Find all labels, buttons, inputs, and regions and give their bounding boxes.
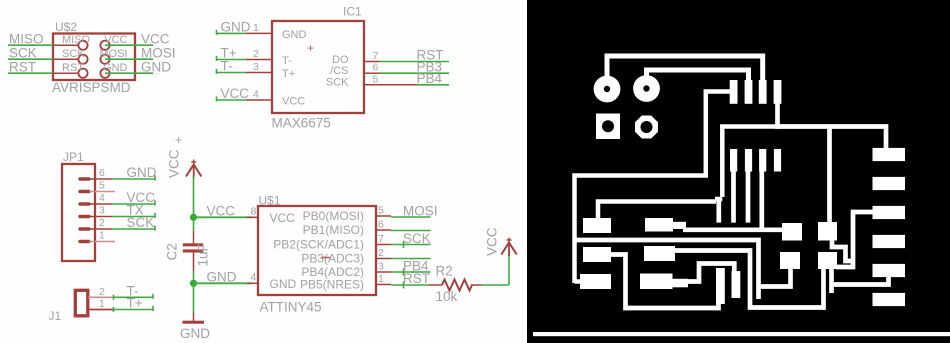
trace M3 up and over to F2 bbox=[685, 264, 734, 282]
svg-text:PB0(MOSI): PB0(MOSI) bbox=[303, 209, 364, 223]
trace A2 zigzag bbox=[832, 240, 852, 261]
svg-text:J1: J1 bbox=[49, 309, 62, 323]
trace A2 feed vertical bbox=[827, 128, 832, 223]
svg-text:10k: 10k bbox=[436, 289, 458, 304]
IC1 polarity mark + bbox=[307, 41, 314, 55]
power symbol + mark bbox=[175, 133, 182, 147]
wire SCK from JP1 pin 2 bbox=[112, 225, 155, 230]
trace main horizontal left corner bbox=[722, 127, 779, 198]
net label GND bbox=[141, 59, 171, 74]
svg-text:1: 1 bbox=[378, 273, 384, 285]
wire GND to IC1 pin 1 bbox=[217, 30, 247, 35]
U$1 pin number 8 bbox=[251, 206, 257, 218]
right IC pad 2 bbox=[873, 177, 906, 190]
U$2 pin SCK stub bbox=[53, 58, 79, 60]
IC1 inner label SCK bbox=[326, 76, 349, 88]
svg-text:GND: GND bbox=[127, 165, 157, 180]
ground symbol GND label bbox=[180, 326, 210, 341]
net label PB4 bbox=[417, 71, 443, 86]
svg-text:ATTINY45: ATTINY45 bbox=[260, 300, 322, 315]
wire RST from IC1 pin 7 bbox=[380, 61, 449, 63]
U$1 inner label PB4(ADC2) bbox=[301, 265, 364, 279]
wire from U$1 pin 6 bbox=[391, 230, 431, 232]
net label RST bbox=[403, 271, 430, 286]
svg-text:4: 4 bbox=[253, 89, 259, 101]
capacitor C2 bottom lead bbox=[193, 253, 195, 272]
wire GND to U$1 pin 4 bbox=[194, 282, 253, 284]
svg-text:7: 7 bbox=[378, 233, 384, 245]
capacitor C2 plates bbox=[183, 243, 203, 252]
IC footprint top pad 4 bbox=[774, 80, 782, 104]
pad octagon hole bbox=[635, 116, 658, 139]
net label PB3 bbox=[417, 59, 443, 74]
trace M1 to A1 bbox=[683, 227, 783, 232]
svg-text:6: 6 bbox=[99, 167, 105, 179]
net label VCC bbox=[207, 204, 236, 219]
J1 pin number 2 bbox=[99, 286, 105, 298]
trace M2 tab long bbox=[674, 251, 824, 308]
svg-text:JP1: JP1 bbox=[63, 150, 84, 164]
wire RST bbox=[8, 72, 53, 74]
U$1 pin 6 stub bbox=[376, 229, 391, 231]
pad round hole 1 bbox=[594, 76, 621, 103]
IC1 inner label /CS bbox=[330, 65, 348, 77]
wire from U$1 pin 2 bbox=[391, 258, 431, 260]
IC1 pin 3 stub bbox=[246, 72, 272, 74]
IC footprint top pad 3 bbox=[759, 80, 767, 104]
svg-text:+: + bbox=[307, 41, 314, 55]
svg-text:SCK: SCK bbox=[326, 76, 349, 88]
svg-text:AVRISPSMD: AVRISPSMD bbox=[52, 80, 131, 95]
svg-text:MOSI: MOSI bbox=[141, 45, 176, 60]
IC1 inner label T+ bbox=[282, 68, 295, 80]
U$1 pin number 6 bbox=[378, 219, 384, 231]
U$1 inner label PB5(NRES) bbox=[300, 278, 364, 292]
board outline bottom edge bbox=[533, 332, 950, 336]
trace long vertical left bbox=[575, 92, 733, 284]
U$2 inner label VCC bbox=[104, 34, 127, 46]
ground symbol GND bar bbox=[183, 321, 205, 324]
IC1 pin number 7 bbox=[373, 50, 379, 62]
wire MOSI right bbox=[105, 58, 153, 60]
right IC pad 5 bbox=[873, 264, 906, 277]
U$1 pin number 1 bbox=[378, 273, 384, 285]
svg-text:VCC: VCC bbox=[167, 149, 182, 178]
JP1 pin number 6 bbox=[99, 167, 105, 179]
svg-text:6: 6 bbox=[373, 62, 379, 74]
net label RST bbox=[417, 48, 444, 63]
U$1 pin number 2 bbox=[378, 247, 384, 259]
resistor R2 left lead bbox=[429, 284, 442, 286]
svg-text:T-: T- bbox=[221, 59, 233, 74]
wire RST bbox=[391, 282, 429, 289]
net label MISO bbox=[9, 31, 44, 46]
wire PB3 from IC1 pin 6 bbox=[380, 72, 449, 74]
svg-text:MISO: MISO bbox=[9, 31, 44, 46]
JP1 pin number 4 bbox=[99, 192, 105, 204]
net label MOSI bbox=[141, 45, 176, 60]
svg-text:3: 3 bbox=[378, 261, 384, 273]
power symbol VCC label bbox=[167, 149, 182, 178]
wire T- from J1 pin 2 bbox=[113, 294, 153, 300]
U$1 pin 7 stub bbox=[376, 244, 391, 246]
IC1 pin 4 stub bbox=[246, 99, 272, 101]
smd pad M2 bbox=[644, 246, 675, 261]
svg-text:RST: RST bbox=[403, 271, 430, 286]
svg-text:PB4: PB4 bbox=[417, 71, 443, 86]
wire VCC junction to C2 bbox=[193, 217, 195, 231]
J1 pin 1 stub bbox=[88, 309, 113, 311]
svg-text:4: 4 bbox=[251, 272, 257, 284]
JP1 pin 5 stub bbox=[80, 190, 115, 193]
wire GND right bbox=[105, 72, 153, 74]
U$1 pin 1 stub bbox=[376, 284, 391, 286]
net label GND bbox=[221, 20, 251, 35]
JP1 pin 4 stub bbox=[80, 202, 112, 205]
svg-text:3: 3 bbox=[253, 61, 259, 73]
resistor R2 right lead bbox=[471, 284, 482, 286]
net label T+ bbox=[221, 46, 237, 61]
net label T+ bbox=[127, 296, 143, 311]
IC IC1 refdes bbox=[343, 5, 362, 19]
smd pad B2 bbox=[818, 252, 837, 269]
IC footprint bottom pad 2 bbox=[745, 149, 752, 172]
net label T- bbox=[127, 284, 139, 299]
svg-text:MOSI: MOSI bbox=[403, 204, 438, 219]
IC footprint bottom pad 1 bbox=[730, 149, 737, 172]
wire MOSI bbox=[391, 216, 431, 218]
IC1 inner label GND bbox=[282, 29, 307, 41]
U$2 pin RST stub bbox=[53, 72, 79, 74]
U$2 pad circle left row 3 bbox=[78, 69, 87, 78]
wire GND from JP1 pin 6 bbox=[112, 175, 155, 180]
U$1 inner label PB3(ADC3) bbox=[301, 252, 364, 266]
net label GND bbox=[207, 270, 237, 285]
svg-text:T-: T- bbox=[282, 55, 292, 67]
svg-text:GND: GND bbox=[180, 326, 210, 341]
U$1 pin 2 stub bbox=[376, 258, 391, 260]
U$1 pin swap mark on PB3 bbox=[322, 257, 331, 259]
IC1 pin 6 stub bbox=[364, 72, 380, 74]
U$1 pin number 3 bbox=[378, 261, 384, 273]
wire VCC from JP1 pin 4 bbox=[112, 200, 155, 205]
wire PB4 bbox=[391, 269, 431, 276]
wire TX from JP1 pin 3 bbox=[112, 213, 155, 218]
U$2 inner label MOSI bbox=[99, 48, 127, 60]
svg-text:PB3(ADC3): PB3(ADC3) bbox=[301, 252, 364, 266]
IC footprint top pad 2 bbox=[745, 80, 753, 104]
JP1 pin 6 stub bbox=[80, 177, 112, 180]
svg-text:GND: GND bbox=[282, 29, 307, 41]
svg-text:6: 6 bbox=[378, 219, 384, 231]
smd pad A1 bbox=[782, 223, 802, 241]
wire T- to IC1 pin 3 bbox=[217, 69, 247, 74]
U$2 pad circle left row 1 bbox=[78, 41, 87, 50]
U$2 pad circle right row 1 bbox=[100, 41, 109, 50]
svg-text:5: 5 bbox=[378, 205, 384, 217]
smd pad bar F1 bbox=[716, 268, 725, 304]
resistor R2 body bbox=[442, 280, 472, 291]
trace bottom right horizontal bbox=[832, 275, 889, 285]
U$1 value ATTINY45 bbox=[260, 300, 322, 315]
U$1 inner label PB0(MOSI) bbox=[303, 209, 364, 223]
capacitor C2 top lead bbox=[193, 231, 195, 243]
JP1 pin 2 stub bbox=[80, 227, 112, 230]
U$1 pin 5 stub bbox=[376, 215, 391, 217]
IC1 pin 2 stub bbox=[246, 59, 272, 61]
ground symbol lead bbox=[193, 313, 195, 321]
IC1 inner label T- bbox=[282, 55, 292, 67]
wire PB4 from IC1 pin 5 bbox=[417, 84, 449, 86]
svg-text:SCK: SCK bbox=[62, 48, 85, 60]
svg-text:PB2(SCK/ADC1): PB2(SCK/ADC1) bbox=[273, 238, 364, 252]
U$2 inner label GND bbox=[103, 62, 128, 74]
smd pad L2 bbox=[583, 247, 611, 262]
net label MOSI bbox=[403, 204, 438, 219]
net label SCK bbox=[127, 215, 155, 230]
svg-text:MOSI: MOSI bbox=[99, 48, 127, 60]
svg-text:1uF: 1uF bbox=[196, 243, 211, 266]
trace staircase to B1 link bbox=[759, 268, 791, 287]
IC footprint top pad 1 bbox=[730, 80, 738, 104]
U$1 pin 3 stub bbox=[376, 271, 391, 273]
IC1 pin 5 stub bbox=[364, 84, 417, 86]
svg-text:4: 4 bbox=[99, 192, 105, 204]
power symbol VCC arrow right bbox=[501, 238, 516, 257]
svg-text:VCC: VCC bbox=[104, 34, 127, 46]
svg-text:T+: T+ bbox=[282, 68, 295, 80]
IC1 pin number 1 bbox=[253, 22, 259, 34]
trace IC pad4 long route bbox=[778, 103, 887, 150]
net label RST bbox=[9, 59, 36, 74]
IC1 pin number 6 bbox=[373, 62, 379, 74]
smd pad B1 bbox=[780, 252, 800, 269]
trace IC bottom pad3 down bbox=[759, 170, 764, 230]
board background bbox=[527, 0, 950, 343]
JP1 pin number 1 bbox=[99, 230, 105, 242]
wire R2 to VCC bbox=[482, 251, 509, 285]
trace pad2 to IC top pad 2 bbox=[647, 70, 749, 82]
U$1 pin number 7 bbox=[378, 233, 384, 245]
U$2 pin MISO stub bbox=[53, 44, 79, 46]
node GND junction bbox=[190, 280, 197, 287]
connector JP1 refdes bbox=[63, 150, 84, 164]
svg-text:2: 2 bbox=[99, 217, 105, 229]
trace corner jog bbox=[715, 197, 722, 202]
svg-text:+: + bbox=[175, 133, 182, 147]
J1 body bbox=[75, 290, 88, 316]
svg-text:1: 1 bbox=[253, 22, 259, 34]
U$1 pin 4 stub bbox=[247, 282, 258, 284]
net label SCK bbox=[9, 45, 37, 60]
IC U$1 refdes bbox=[259, 194, 281, 208]
net label VCC bbox=[127, 190, 156, 205]
svg-text:C2: C2 bbox=[165, 243, 180, 260]
U$1 pin number 4 bbox=[251, 272, 257, 284]
U$2 value AVRISPSMD bbox=[52, 80, 131, 95]
svg-text:PB5(NRES): PB5(NRES) bbox=[300, 278, 364, 292]
pad square hole bbox=[596, 114, 620, 140]
JP1 pin number 5 bbox=[99, 180, 105, 192]
U$1 inner label PB1(MISO) bbox=[303, 223, 364, 237]
svg-text:RST: RST bbox=[62, 62, 84, 74]
svg-text:5: 5 bbox=[373, 73, 379, 85]
wire MISO bbox=[8, 44, 53, 46]
svg-text:3: 3 bbox=[99, 205, 105, 217]
svg-text:2: 2 bbox=[253, 48, 259, 60]
svg-text:1: 1 bbox=[99, 298, 105, 310]
svg-text:RST: RST bbox=[9, 59, 36, 74]
connector J1 refdes bbox=[49, 309, 62, 323]
trace L3 connect bbox=[575, 279, 583, 284]
svg-text:VCC: VCC bbox=[282, 96, 305, 108]
IC footprint bottom pad 4 bbox=[774, 149, 781, 172]
J1 pin number 1 bbox=[99, 298, 105, 310]
trace L2 route down bbox=[610, 255, 719, 309]
wire T+ from J1 pin 1 bbox=[113, 306, 153, 312]
capacitor C2 refdes bbox=[165, 243, 180, 260]
wire VCC right bbox=[105, 44, 153, 46]
resistor R2 value 10k bbox=[436, 289, 458, 304]
U$2 pad circle right row 2 bbox=[100, 55, 109, 64]
IC1 MAX6675 body bbox=[272, 21, 364, 113]
JP1 body bbox=[62, 164, 95, 261]
smd pad M3 bbox=[640, 274, 688, 290]
right IC pad 3 bbox=[873, 206, 906, 219]
svg-text:T+: T+ bbox=[127, 296, 143, 311]
power symbol VCC arrow bbox=[186, 160, 201, 179]
U$2 pin VCC stub bbox=[110, 44, 135, 46]
IC1 value MAX6675 bbox=[272, 116, 331, 131]
wire VCC to U$1 pin 8 bbox=[194, 216, 253, 218]
right IC pad 4 bbox=[873, 235, 906, 248]
svg-text:PB1(MISO): PB1(MISO) bbox=[303, 223, 364, 237]
net label VCC bbox=[141, 31, 170, 46]
net label SCK bbox=[403, 231, 431, 246]
JP1 pin number 3 bbox=[99, 205, 105, 217]
svg-text:GND: GND bbox=[221, 20, 251, 35]
smd pad bar F2 bbox=[732, 271, 741, 298]
svg-text:2: 2 bbox=[99, 286, 105, 298]
svg-text:GND: GND bbox=[207, 270, 237, 285]
wire SCK bbox=[8, 58, 53, 60]
trace jog down stub bbox=[716, 199, 721, 223]
IC1 pin number 3 bbox=[253, 61, 259, 73]
trace B2 bottom stub bbox=[829, 269, 834, 293]
capacitor C2 value 1uF bbox=[196, 243, 211, 266]
smd pad L1 bbox=[583, 218, 611, 233]
wire SCK bbox=[391, 241, 431, 248]
svg-text:5: 5 bbox=[99, 180, 105, 192]
U$2 pad circle right row 3 bbox=[100, 69, 109, 78]
net label TX bbox=[127, 203, 144, 218]
svg-text:DO: DO bbox=[332, 54, 349, 66]
right IC pad 6 bbox=[873, 293, 906, 306]
wire T+ to IC1 pin 2 bbox=[217, 56, 247, 61]
right IC pad 1 bbox=[873, 148, 906, 161]
svg-text:VCC: VCC bbox=[485, 227, 500, 256]
U$1 pin number 5 bbox=[378, 205, 384, 217]
net label VCC bbox=[221, 86, 250, 101]
svg-text:VCC: VCC bbox=[141, 31, 170, 46]
U$2 inner label SCK bbox=[62, 48, 85, 60]
JP1 pin number 2 bbox=[99, 217, 105, 229]
svg-text:GND: GND bbox=[270, 277, 297, 291]
svg-text:SCK: SCK bbox=[127, 215, 155, 230]
net label GND bbox=[127, 165, 157, 180]
IC1 pin number 4 bbox=[253, 89, 259, 101]
svg-text:SCK: SCK bbox=[403, 231, 431, 246]
smd pad M1 bbox=[645, 218, 686, 232]
svg-text:MISO: MISO bbox=[62, 34, 91, 46]
node VCC junction bbox=[190, 214, 197, 221]
svg-text:8: 8 bbox=[251, 206, 257, 218]
wire GND junction down bbox=[193, 283, 195, 313]
U$2 pin GND stub bbox=[110, 72, 135, 74]
net label T- bbox=[221, 59, 233, 74]
connector U$2 AVRISPSMD body bbox=[53, 34, 135, 81]
U$2 pad circle left row 2 bbox=[78, 55, 87, 64]
U$1 inner label PB2(SCK/ADC1) bbox=[273, 238, 364, 252]
smd pad A2 bbox=[818, 222, 837, 241]
wire VCC vertical bbox=[193, 176, 195, 217]
U$1 pin 8 stub bbox=[247, 216, 258, 218]
trace mid horizontal to B1 bbox=[575, 240, 759, 299]
svg-text:7: 7 bbox=[373, 50, 379, 62]
trace L1 up and across bbox=[598, 202, 716, 219]
IC1 pin number 2 bbox=[253, 48, 259, 60]
IC1 inner label DO bbox=[332, 54, 349, 66]
IC1 pin number 5 bbox=[373, 73, 379, 85]
svg-text:1: 1 bbox=[99, 230, 105, 242]
svg-text:MAX6675: MAX6675 bbox=[272, 116, 331, 131]
resistor R2 refdes bbox=[436, 264, 453, 279]
J1 pin 2 stub bbox=[88, 296, 113, 298]
svg-text:VCC: VCC bbox=[207, 204, 236, 219]
smd pad L3 bbox=[580, 274, 611, 289]
U$2 inner label RST bbox=[62, 62, 84, 74]
trace IC bottom pad2 down bbox=[746, 170, 751, 223]
svg-text:2: 2 bbox=[378, 247, 384, 259]
trace B2 to right pad3 bbox=[836, 212, 874, 267]
svg-text:GND: GND bbox=[141, 59, 171, 74]
trace pad1 to IC top pad 3 bbox=[607, 56, 763, 82]
U$2 pin MOSI stub bbox=[110, 58, 135, 60]
svg-text:VCC: VCC bbox=[221, 86, 250, 101]
pad round hole 2 bbox=[633, 75, 660, 102]
IC1 pin 7 stub bbox=[364, 61, 380, 63]
svg-text:R2: R2 bbox=[436, 264, 453, 279]
connector U$2 refdes bbox=[55, 20, 77, 34]
svg-text:SCK: SCK bbox=[9, 45, 37, 60]
svg-text:VCC: VCC bbox=[270, 211, 296, 225]
net label PB4 bbox=[403, 259, 429, 274]
U$1 ATTINY45 body bbox=[258, 206, 376, 295]
svg-text:GND: GND bbox=[103, 62, 128, 74]
trace IC bottom pad1 down bbox=[731, 170, 736, 223]
svg-text:IC1: IC1 bbox=[343, 5, 362, 19]
wire VCC to IC1 pin 4 bbox=[217, 96, 247, 101]
U$1 inner label VCC bbox=[270, 211, 296, 225]
wire C2 to GND junction bbox=[193, 271, 195, 283]
JP1 pin 1 stub bbox=[80, 240, 115, 243]
U$1 inner label GND bbox=[270, 277, 297, 291]
U$2 inner label MISO bbox=[62, 34, 91, 46]
svg-text:U$2: U$2 bbox=[55, 20, 77, 34]
IC1 inner label VCC bbox=[282, 96, 305, 108]
IC1 pin 1 stub bbox=[246, 32, 272, 34]
JP1 pin 3 stub bbox=[80, 215, 112, 218]
